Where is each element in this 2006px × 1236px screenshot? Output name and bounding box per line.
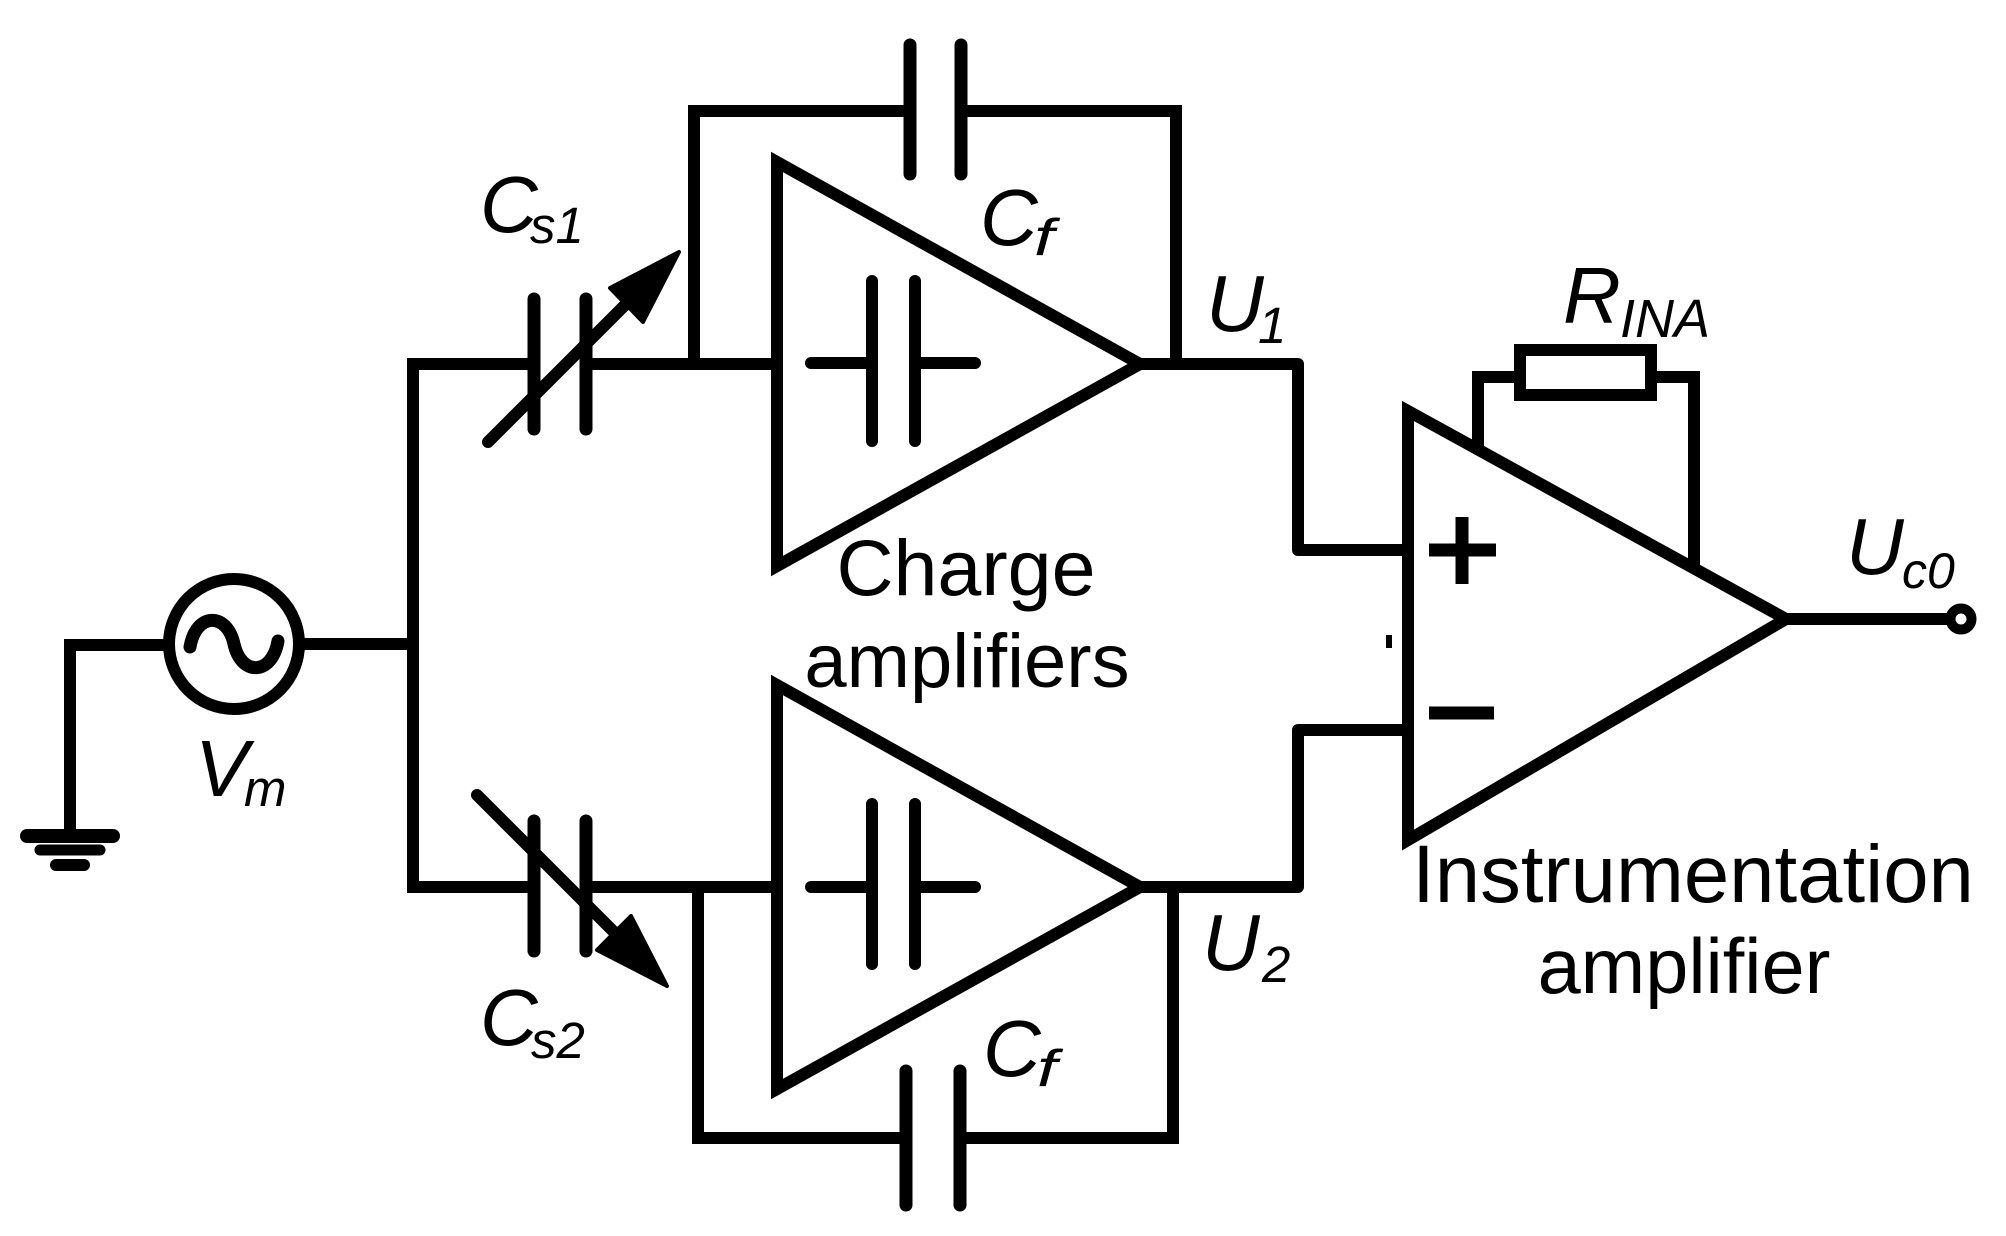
svg-text:s2: s2: [531, 1012, 585, 1069]
wire: source left lead to ground: [70, 645, 166, 832]
svg-text:amplifiers: amplifiers: [804, 619, 1129, 704]
svg-text:C: C: [980, 173, 1039, 262]
wire: bottom feedback right: [966, 887, 1173, 1138]
wire: U2 output to INA minus input: [1141, 730, 1408, 887]
wire: top feedback right: [967, 111, 1176, 364]
svg-text:2: 2: [1261, 936, 1290, 993]
capacitor symbol inside U1: [811, 281, 975, 441]
arrow of variable capacitor Cs2: [477, 795, 667, 986]
capacitor Cf (top): [910, 45, 961, 174]
svg-text:s1: s1: [530, 197, 584, 254]
svg-text:U: U: [1846, 502, 1905, 591]
terminal Uc0: [1951, 609, 1972, 630]
wire: bottom branch to Cs2: [407, 881, 529, 893]
wire: top branch to Cs1: [407, 358, 529, 370]
wire: input node vertical: [407, 370, 419, 881]
svg-text:R: R: [1563, 251, 1621, 340]
svg-text:Instrumentation: Instrumentation: [1412, 829, 1974, 920]
stray tick mark: [1386, 635, 1392, 648]
wire: source right lead to input node: [302, 638, 413, 650]
svg-text:U: U: [1202, 898, 1261, 987]
AC source Vm: [169, 579, 299, 709]
wire: INA output: [1786, 613, 1947, 625]
op-amp U2 (charge amplifier): [777, 685, 1140, 1089]
svg-text:U: U: [1206, 259, 1265, 348]
svg-text:amplifier: amplifier: [1538, 924, 1831, 1010]
capacitor Cs2 (variable): [534, 821, 586, 951]
ground: [27, 836, 113, 865]
wire: R_INA left lead: [1478, 377, 1514, 452]
svg-text:1: 1: [1258, 297, 1286, 354]
op-amp INA (instrumentation amplifier): [1408, 411, 1786, 840]
wire: Cs2 to U2 input: [591, 881, 783, 893]
resistor R_INA: [1520, 350, 1651, 395]
plus input marking: [1429, 517, 1496, 584]
svg-text:m: m: [244, 760, 286, 817]
wire: Cs1 to U1 input: [591, 358, 783, 370]
svg-text:INA: INA: [1620, 289, 1710, 349]
capacitor Cf (bottom): [906, 1071, 960, 1205]
wire: U1 output to INA plus input: [1141, 364, 1408, 550]
svg-text:c0: c0: [1902, 543, 1955, 599]
wire: bottom feedback left: [698, 887, 900, 1138]
wire: top feedback left: [694, 111, 904, 364]
minus input marking: [1429, 707, 1494, 720]
capacitor symbol inside U2: [811, 804, 975, 964]
wire: R_INA right lead: [1657, 377, 1694, 570]
op-amp U1 (charge amplifier): [777, 162, 1140, 566]
capacitor Cs1 (variable): [534, 299, 586, 429]
svg-text:C: C: [983, 1004, 1042, 1093]
arrow of variable capacitor Cs1: [488, 252, 679, 442]
svg-text:Charge: Charge: [836, 523, 1095, 612]
